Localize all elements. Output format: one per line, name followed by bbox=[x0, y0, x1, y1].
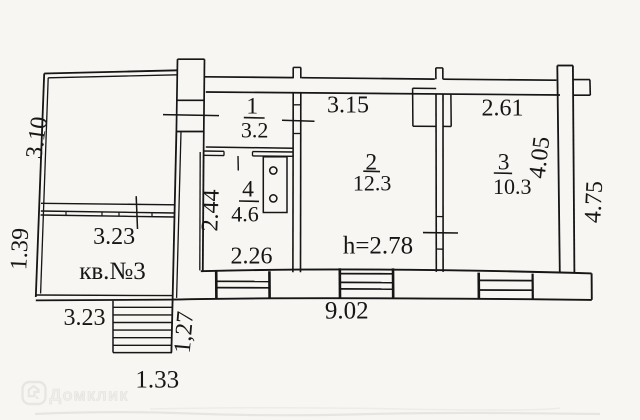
stack C right line bbox=[573, 66, 575, 273]
wall A rung 1 bbox=[293, 104, 301, 106]
wall B left line upper stub bbox=[435, 68, 437, 79]
window W3 left bar bbox=[477, 273, 480, 299]
column stack top-left outline bbox=[176, 59, 204, 152]
wire kv3 bottom wall top line bbox=[36, 294, 173, 297]
window W1 left bar bbox=[215, 271, 218, 298]
wall B rung 1 bbox=[436, 216, 443, 218]
svg-text:4.75: 4.75 bbox=[580, 180, 608, 223]
svg-text:1.33: 1.33 bbox=[135, 367, 179, 394]
svg-text:3: 3 bbox=[498, 150, 510, 176]
wire kv3 right wall line1 stairs edge bbox=[171, 132, 176, 353]
right arm top bbox=[573, 79, 590, 81]
window W2 left bar bbox=[338, 268, 341, 298]
main top wall top line seg2 bbox=[302, 78, 435, 79]
svg-text:4.05: 4.05 bbox=[524, 135, 555, 180]
wall A right line upper stub bbox=[300, 67, 302, 78]
svg-text:1: 1 bbox=[246, 94, 258, 120]
svg-text:12.3: 12.3 bbox=[353, 171, 392, 196]
door jamb left bbox=[223, 151, 225, 155]
svg-text:кв.№3: кв.№3 bbox=[79, 258, 146, 285]
wire kv3 right wall line2 bbox=[177, 132, 181, 298]
window W2 glazing lines bbox=[340, 281, 393, 283]
node dimension tick T2 bbox=[282, 119, 315, 122]
wire kv3 partition upper bbox=[41, 211, 175, 213]
stairs bottom edge bbox=[113, 352, 172, 354]
window W2 top line bbox=[340, 273, 393, 275]
niche room3 right vertical bbox=[450, 95, 452, 127]
corner rect divider bbox=[531, 274, 533, 300]
wire annex top outer bbox=[44, 70, 177, 73]
svg-text:h=2.78: h=2.78 bbox=[343, 233, 413, 260]
window W3 glazing lines bbox=[479, 279, 533, 281]
wire bottom outer wall line main bowed bbox=[173, 298, 592, 300]
wall B left line bbox=[435, 94, 437, 272]
room4 fraction bar bbox=[239, 200, 259, 202]
svg-text:4.6: 4.6 bbox=[231, 202, 259, 227]
wire corridor left wall inner bbox=[199, 152, 201, 270]
niche room3 bottom bbox=[443, 125, 451, 127]
watermark domklik logo bbox=[23, 382, 46, 404]
wall B rung 2 bbox=[436, 248, 443, 250]
svg-text:3.23: 3.23 bbox=[93, 224, 135, 250]
bottom wall inner line bowed bbox=[201, 269, 592, 273]
window W1 glazing lines bbox=[216, 280, 269, 282]
stack B cap bbox=[436, 67, 443, 69]
window W2 right bar bbox=[392, 268, 395, 298]
svg-text:2.44: 2.44 bbox=[197, 189, 224, 232]
svg-text:4: 4 bbox=[242, 177, 254, 203]
room4 top partition right seg upper bbox=[253, 151, 294, 153]
wire annex top inner bbox=[48, 75, 177, 78]
node partition tick c bbox=[118, 212, 120, 216]
node partition tick a bbox=[65, 211, 67, 215]
node dimension tick T4 bbox=[423, 232, 458, 234]
stairs left edge bbox=[112, 301, 114, 353]
node dimension tick T1 bbox=[163, 115, 219, 116]
stove burner 2 bbox=[270, 195, 277, 202]
node partition tick b bbox=[101, 212, 103, 216]
main top wall bottom line bbox=[206, 92, 560, 95]
wire left inner wall bbox=[41, 78, 49, 294]
scan smudge bottom bbox=[35, 412, 600, 415]
right arm right edge bbox=[589, 80, 591, 96]
right arm bottom bbox=[574, 94, 590, 96]
room4 top partition right seg lower bbox=[253, 155, 294, 157]
wall A right line bbox=[300, 93, 302, 272]
main top wall top line seg3 bbox=[443, 79, 556, 80]
node dimension tick T5 bbox=[136, 196, 137, 229]
svg-text:1.39: 1.39 bbox=[6, 227, 34, 270]
wall A left line bbox=[292, 93, 294, 272]
wire left outer wall bbox=[36, 74, 44, 298]
main top wall top line seg1 bbox=[205, 76, 294, 79]
bottom wall right edge bbox=[591, 273, 593, 299]
closet room2 bottom edge bbox=[413, 125, 436, 127]
svg-text:9.02: 9.02 bbox=[325, 298, 369, 325]
closet room2 left edge bbox=[412, 88, 414, 126]
stove burner 1 bbox=[270, 167, 277, 174]
door leaf room4 bbox=[237, 156, 239, 171]
node partition tick d bbox=[151, 213, 153, 217]
stack C left line bbox=[557, 66, 560, 273]
wire bottom outer wall line kv3 part bbox=[36, 299, 173, 302]
svg-text:2.26: 2.26 bbox=[231, 244, 273, 270]
svg-text:1,27: 1,27 bbox=[170, 310, 200, 354]
room4 top partition left seg lower bbox=[203, 154, 224, 156]
wall B right line bbox=[442, 94, 444, 272]
svg-text:Домклик: Домклик bbox=[50, 387, 129, 405]
stove outline bbox=[263, 157, 287, 213]
door jamb right bbox=[252, 152, 254, 156]
svg-text:3.2: 3.2 bbox=[241, 118, 269, 143]
stack C cap bbox=[557, 65, 573, 67]
room1 floor line bbox=[206, 147, 294, 148]
stairs steps bbox=[113, 307, 172, 345]
closet room2 top edge bbox=[413, 87, 437, 89]
svg-text:2.61: 2.61 bbox=[482, 96, 524, 122]
window W1 right bar bbox=[268, 271, 271, 298]
room2 fraction bar bbox=[363, 170, 380, 172]
svg-text:3.15: 3.15 bbox=[327, 93, 369, 119]
wire kv3 partition lower bbox=[41, 215, 175, 217]
wall B right line upper stub bbox=[442, 68, 444, 80]
wall A rung 2 bbox=[293, 133, 301, 135]
room1 fraction bar bbox=[244, 117, 265, 119]
room3 fraction bar bbox=[494, 172, 512, 174]
scan smudge faint upper bbox=[150, 408, 560, 410]
svg-text:3.23: 3.23 bbox=[64, 305, 106, 331]
wire annex floor line bbox=[41, 203, 176, 205]
wire corridor left wall outer bbox=[202, 152, 205, 271]
wall A left line upper stub bbox=[292, 67, 294, 78]
stack A cap bbox=[293, 66, 301, 68]
room4 top partition left seg upper bbox=[203, 150, 224, 152]
